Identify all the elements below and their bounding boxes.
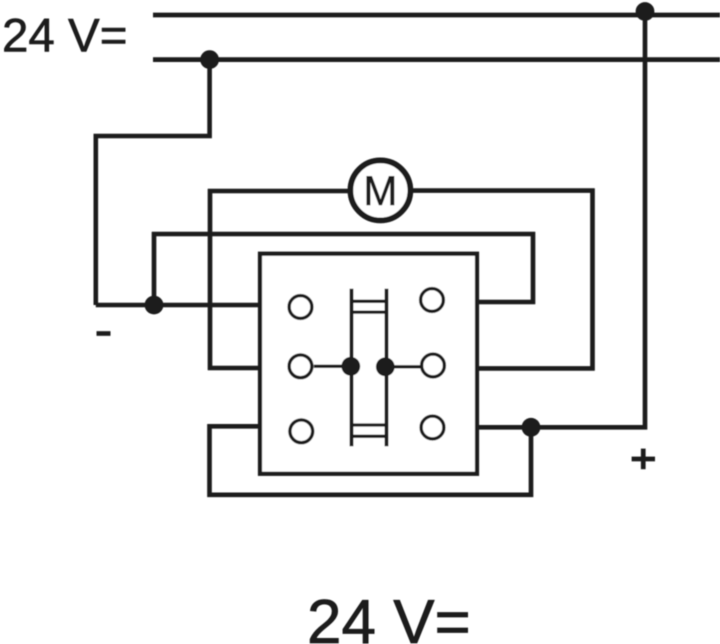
label plus [632, 449, 655, 470]
contact stub left-middle [314, 365, 351, 368]
contact dot right [376, 357, 395, 376]
bridge rung bottom 1 [352, 423, 387, 426]
label minus [97, 331, 111, 336]
wire node minus up and over to right-top terminal [154, 234, 533, 305]
wire second rail (-) [153, 57, 720, 62]
terminal right-middle [422, 354, 445, 377]
terminal right-bottom [421, 416, 444, 439]
wire node minus to left-top terminal [96, 303, 260, 308]
wire node plus around bottom to left-bottom terminal [210, 426, 532, 495]
bridge rung top 2 [352, 310, 387, 313]
wire motor right to right-middle terminal [380, 191, 593, 369]
terminal left-middle [289, 355, 312, 378]
contact dot left [341, 357, 360, 376]
junction node minus [145, 296, 164, 315]
bridge rung top 1 [352, 300, 387, 303]
wire motor left to left-middle terminal [210, 191, 380, 368]
terminal left-bottom [290, 420, 313, 443]
terminal left-top [289, 296, 312, 319]
svg-text:24 V=: 24 V= [307, 588, 471, 644]
wire plus rail down right side to node plus [477, 12, 645, 428]
junction dot on minus rail [200, 50, 219, 69]
switch block S1 body [260, 254, 477, 474]
terminal right-top [421, 289, 444, 312]
wire top rail (+) [153, 13, 720, 18]
contact stub right-middle [386, 365, 421, 368]
junction node plus [522, 418, 541, 437]
wire from minus rail down-left to node minus [96, 60, 210, 305]
junction dot on plus rail [636, 2, 655, 21]
bridge rung bottom 2 [352, 435, 387, 438]
actuator bar left [350, 289, 354, 447]
svg-text:24 V=: 24 V= [2, 10, 127, 63]
actuator bar right [385, 289, 389, 447]
motor U1 circle [350, 160, 410, 220]
svg-text:M: M [363, 167, 397, 214]
